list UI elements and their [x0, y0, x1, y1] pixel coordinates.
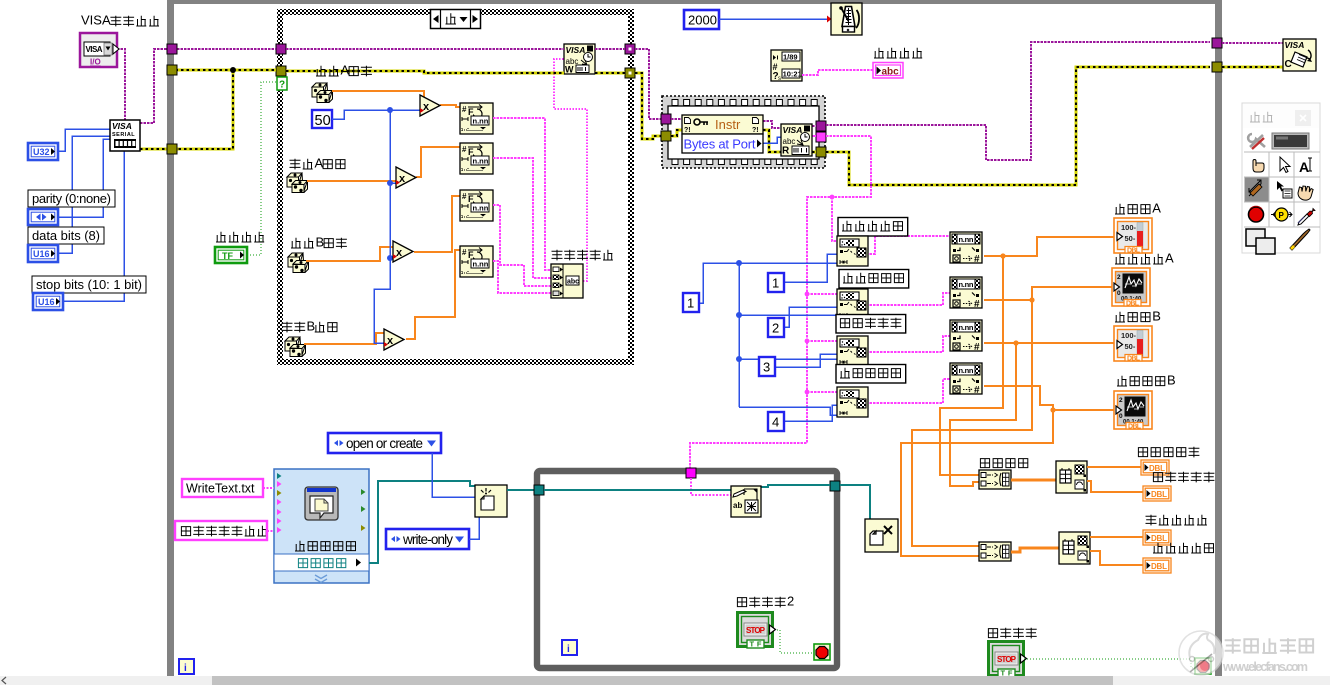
blue junction c	[736, 356, 742, 362]
svg-text:i: i	[567, 644, 570, 655]
coercion dot on wait input	[827, 16, 832, 23]
orange junction tempA	[1000, 253, 1005, 258]
svg-text:C: C	[1285, 59, 1292, 70]
svg-text:x: x	[387, 335, 394, 347]
svg-text:VISA: VISA	[1285, 40, 1305, 50]
array wire to max-min 2	[1011, 548, 1059, 552]
junction blue 1	[387, 107, 393, 113]
case left tunnel error (olive)	[276, 66, 286, 76]
VISA read node	[781, 124, 812, 157]
svg-text:DBL: DBL	[1151, 562, 1167, 571]
number-to-fractional-string 2	[460, 143, 493, 174]
VISA close node	[1283, 39, 1316, 71]
label "湿度最小值"	[1153, 543, 1214, 553]
DBL indicator hum min	[1143, 558, 1171, 573]
sequence left tunnel VISA	[661, 114, 671, 124]
error wire into case	[233, 69, 276, 72]
orange junction humB	[1050, 407, 1055, 412]
label "parity (0:none)"	[28, 190, 115, 207]
constant 4	[768, 412, 784, 431]
label "停止采集"	[988, 628, 1036, 639]
tools palette window	[1242, 103, 1320, 253]
wire multiply4 to to-fract-string4	[406, 250, 460, 339]
svg-text:A: A	[1152, 201, 1161, 216]
pink junction 1	[830, 195, 835, 200]
svg-text:100-: 100-	[1121, 331, 1137, 340]
fract/exp string to number 4	[950, 363, 982, 396]
wire offset4 to subset4	[784, 405, 837, 421]
pink junction 4	[805, 390, 810, 395]
svg-text:W: W	[565, 65, 574, 75]
error wire to close	[1222, 66, 1283, 69]
number-to-fractional-string 4	[460, 246, 493, 277]
loop right tunnel error	[1212, 62, 1222, 72]
VISA resource name control	[80, 33, 119, 67]
array max & min node (hum)	[1059, 532, 1090, 564]
svg-text:2: 2	[772, 321, 779, 336]
svg-text:3: 3	[763, 360, 770, 375]
error wire sequence to loop tunnel	[826, 67, 1210, 185]
wire write-only to open node	[469, 517, 479, 539]
sequence right tunnel VISA	[816, 121, 826, 131]
svg-text:50-: 50-	[1125, 342, 1136, 351]
label "部分字符串" 1	[838, 218, 908, 237]
label "湿度最大值"	[1146, 515, 1207, 526]
inner loop iteration terminal	[562, 640, 577, 655]
VISA wire sequence to loop tunnel	[826, 42, 1210, 160]
constant 50	[312, 110, 332, 129]
svg-text:parity (0:none): parity (0:none)	[32, 191, 111, 206]
wire offset2 to subset2	[784, 307, 837, 327]
svg-text:?!: ?!	[752, 127, 759, 134]
svg-text:VISA: VISA	[783, 125, 803, 135]
orange tempA to thermometer A	[984, 237, 1114, 256]
error wire write to tunnel	[595, 72, 625, 75]
svg-text:1/89: 1/89	[783, 53, 798, 62]
svg-text:STOP: STOP	[746, 626, 766, 635]
fract/exp string to number 1	[950, 232, 982, 265]
outer while loop border	[167, 0, 1222, 676]
array wire to max-min	[1011, 479, 1056, 482]
case right tunnel error (olive)	[625, 68, 635, 78]
blue len to subset3	[739, 358, 837, 360]
VISA wire case to sequence	[635, 49, 661, 119]
watermark text 电子发烧友	[1225, 638, 1313, 653]
VISA wire to close	[1222, 42, 1283, 44]
case selector label	[431, 10, 481, 29]
junction blue 2	[387, 180, 393, 186]
wire multiply3 to to-fract-string3	[414, 196, 460, 252]
string wire F4 to concat	[493, 261, 551, 293]
loop left tunnel VISA (purple)	[167, 44, 177, 54]
string subset node 3	[837, 336, 868, 366]
label "部分字符串" 2	[839, 270, 909, 289]
open/create/replace file node	[475, 485, 507, 517]
label "波形图表A"	[1115, 251, 1174, 266]
string wire subset4 out	[866, 379, 950, 403]
blue branch multiply2	[390, 182, 396, 184]
svg-text:2: 2	[787, 594, 794, 609]
string wire concat to VISA write	[554, 59, 587, 281]
path wire dialog to open-create	[369, 481, 475, 563]
wire configure-serial VISA out to loop tunnel	[140, 49, 167, 123]
svg-text:www.elecfans.com: www.elecfans.com	[1222, 660, 1308, 674]
path wire to close file	[840, 485, 870, 519]
orange humB to build-array2	[901, 410, 1053, 556]
svg-text:2: 2	[1117, 274, 1121, 281]
string branch to subset3	[807, 340, 837, 342]
case structure border (true case)	[277, 9, 634, 365]
multiply node 4	[384, 329, 404, 350]
string subset node 4	[837, 387, 868, 417]
svg-text:n.nn: n.nn	[959, 235, 974, 244]
svg-text:x: x	[399, 173, 406, 185]
wire dice B-hum to multiply	[304, 333, 384, 344]
string wire subset1 out	[866, 236, 952, 254]
wire constant 50 to multiplies	[332, 110, 420, 119]
svg-text:abc: abc	[882, 67, 900, 78]
svg-text:50: 50	[315, 113, 331, 129]
case selector ? terminal	[277, 77, 287, 91]
label "温度计B"	[1115, 309, 1161, 324]
svg-text:s: s	[778, 76, 781, 82]
svg-text:VISA: VISA	[112, 121, 132, 131]
svg-text:VISA: VISA	[81, 13, 111, 28]
svg-text:4: 4	[772, 415, 779, 430]
svg-text:VISA: VISA	[86, 45, 103, 54]
svg-text:STOP: STOP	[997, 655, 1017, 664]
VISA wire across case	[286, 48, 564, 50]
pink junction 3	[805, 339, 810, 344]
U32 baud rate terminal	[28, 143, 58, 160]
svg-text:U32: U32	[33, 147, 50, 157]
error wire property node to read	[763, 130, 781, 152]
sequence left tunnel error	[661, 131, 671, 141]
string wire subset2 out	[866, 293, 950, 305]
write text file node	[731, 486, 761, 517]
inner loop right tunnel path	[830, 481, 840, 491]
svg-text:stop bits (10: 1 bit): stop bits (10: 1 bit)	[36, 277, 142, 292]
DBL indicator hum max	[1143, 530, 1171, 545]
string constant WriteText.txt	[182, 479, 263, 497]
number-to-fractional-string 3	[460, 190, 493, 221]
constant 1 (offset A)	[768, 273, 784, 292]
svg-text:2000: 2000	[688, 13, 717, 28]
string subset node 1	[837, 236, 868, 266]
wire VISA control to configure-serial	[117, 49, 125, 120]
wire len-1 to bus	[700, 263, 739, 303]
label "stop bits (10: 1 bit)"	[32, 276, 146, 293]
constant 1 (length)	[683, 293, 699, 312]
enum constant "open or create"	[328, 433, 441, 453]
orange humA to chart A	[984, 287, 1112, 300]
label "VISA资源名称"	[81, 13, 159, 28]
wire start-collect boolean to case selector	[247, 82, 277, 255]
path wire write-text to right tunnel	[761, 485, 830, 487]
error wire serial out	[140, 70, 233, 149]
error wire junction	[230, 67, 236, 73]
string branch to subset2	[807, 293, 837, 295]
svg-text:#: #	[462, 105, 467, 114]
array max & min node (temp)	[1056, 461, 1087, 493]
svg-text:DBL: DBL	[1128, 424, 1142, 431]
boolean wire stop2 to condition	[777, 630, 814, 653]
svg-text:#: #	[974, 299, 980, 310]
svg-text:x: x	[423, 101, 430, 113]
label "串口A湿度"	[290, 156, 346, 171]
label "停止采集 2"	[737, 594, 794, 609]
svg-text:10:21: 10:21	[783, 70, 802, 79]
thermometer A indicator	[1114, 218, 1152, 255]
svg-text:#: #	[462, 248, 467, 257]
svg-text:n.nn: n.nn	[959, 366, 974, 375]
svg-text:A: A	[340, 63, 349, 78]
error wire tunnel to property node	[671, 130, 682, 136]
waveform chart A indicator	[1112, 268, 1150, 308]
string wire tunnel to write-text	[691, 478, 731, 495]
loop left tunnel error (olive) upper	[167, 65, 177, 75]
svg-text:B: B	[306, 319, 315, 334]
label "温度计A"	[1115, 201, 1161, 216]
orange humA to build-array2	[912, 300, 1032, 546]
orange junction tempB	[1013, 340, 1018, 345]
svg-text:#: #	[462, 145, 467, 154]
blue len to subset4	[739, 407, 837, 415]
string wire read buffer down	[690, 136, 871, 468]
string wire F3 to concat	[493, 205, 551, 286]
blue length bus	[738, 263, 740, 407]
wire bytes-at-port to read count	[763, 137, 781, 143]
wire dice B-temp to multiply	[306, 247, 394, 261]
svg-text:1: 1	[687, 296, 694, 311]
case left tunnel VISA (purple)	[276, 44, 286, 54]
VISA write node	[564, 44, 595, 75]
svg-text:I/O: I/O	[90, 58, 101, 67]
constant 3	[759, 357, 775, 376]
build array node (temp)	[979, 470, 1011, 489]
orange tempB to build-array	[950, 343, 1016, 486]
multiply node 1	[420, 95, 440, 116]
svg-text:Bytes at Port: Bytes at Port	[684, 137, 756, 152]
blue len to subset1	[739, 262, 837, 264]
VISA configure serial port node	[110, 120, 140, 151]
svg-text:n.nn: n.nn	[473, 204, 489, 213]
svg-text:DBL: DBL	[1151, 490, 1167, 499]
svg-text:DBL: DBL	[1126, 301, 1140, 308]
svg-text:A: A	[1165, 251, 1174, 266]
flat sequence structure (film frame)	[662, 96, 825, 168]
loop right tunnel VISA	[1212, 38, 1222, 48]
blue len to subset2	[739, 314, 837, 316]
wire open-or-create to open node	[432, 453, 475, 497]
enum constant "write-only"	[386, 529, 469, 549]
property node Instr / Bytes at Port	[682, 115, 763, 153]
U16 data bits terminal	[28, 245, 58, 262]
error wire read to tunnel	[812, 151, 816, 154]
label "data bits (8)"	[28, 227, 104, 244]
random dice 串口B湿度	[285, 337, 306, 357]
palette color swatches	[1246, 229, 1310, 254]
svg-text:n.nn: n.nn	[473, 157, 489, 166]
concatenate strings node	[551, 264, 583, 298]
waveform chart B indicator	[1114, 391, 1152, 431]
wire multiply1 to to-fract-string1	[440, 105, 460, 107]
svg-text:?: ?	[279, 80, 285, 91]
loop left tunnel error (olive) lower	[167, 144, 177, 154]
label "连接字符串"	[552, 250, 613, 261]
svg-text:DBL: DBL	[1149, 464, 1165, 473]
random dice 串口B温度	[288, 253, 309, 273]
string branch to subset4	[807, 391, 837, 393]
sequence right tunnel error	[816, 147, 826, 157]
orange tempA to build-array	[940, 256, 1003, 475]
stop button 停止采集 2	[738, 613, 776, 649]
label "串口B湿度"	[282, 319, 338, 334]
label 所选路径 (in dialog)	[298, 559, 345, 568]
blue junction a	[736, 260, 742, 266]
svg-text:DBL: DBL	[1127, 356, 1141, 363]
wire VISA into case (inside loop)	[177, 48, 276, 50]
svg-text:A: A	[314, 156, 323, 171]
parity enum terminal	[28, 209, 58, 225]
svg-text:B: B	[315, 235, 324, 250]
wait until next ms multiple node (metronome)	[831, 3, 862, 35]
inner while loop border	[537, 471, 837, 668]
string subset node 2	[837, 289, 868, 319]
wire dice A-hum to multiply	[307, 172, 400, 181]
wire stop bits to serial node	[63, 151, 124, 301]
label "创建数组"	[980, 459, 1027, 468]
svg-text:B: B	[1152, 309, 1161, 324]
svg-text:n.nn: n.nn	[473, 260, 489, 269]
svg-text:n.nn: n.nn	[959, 280, 974, 289]
start collect TF boolean terminal	[215, 247, 247, 263]
label 文件对话框 (in dialog)	[295, 541, 356, 551]
orange tempB to thermometer B	[984, 342, 1114, 344]
label "部分字符串" 3	[836, 315, 906, 334]
watermark logo	[1179, 631, 1223, 675]
orange min temp	[1087, 481, 1143, 492]
error wire case to sequence	[635, 73, 661, 139]
svg-text:#: #	[974, 254, 980, 265]
string wire subset3 out	[866, 336, 950, 352]
svg-text:100-: 100-	[1121, 223, 1137, 232]
thermometer B indicator	[1114, 326, 1152, 363]
label "串口B温度"	[291, 235, 347, 250]
orange junction humA	[1029, 297, 1034, 302]
random dice 串口A湿度	[287, 173, 308, 193]
svg-text:i: i	[184, 663, 187, 674]
wire 2000 to wait-ms	[719, 18, 827, 20]
svg-text:n.nn: n.nn	[959, 323, 974, 332]
outer loop iteration terminal	[179, 659, 194, 674]
wire parity to serial node	[58, 139, 110, 217]
svg-text:n.nn: n.nn	[473, 117, 489, 126]
boolean wire stop to condition	[1024, 659, 1195, 668]
palette tool grid	[1244, 152, 1320, 227]
random dice 串口A温度	[312, 83, 333, 103]
string wire F2 to concat	[493, 158, 551, 278]
blue branch multiply3	[390, 257, 393, 259]
close file node	[865, 519, 898, 552]
svg-text:data bits (8): data bits (8)	[32, 228, 100, 243]
svg-text:A: A	[1299, 159, 1309, 175]
string wire F1 to concat	[493, 118, 551, 270]
error wire across case	[286, 71, 564, 73]
fract/exp string to number 3	[950, 320, 982, 353]
multiply node 3	[393, 241, 413, 262]
svg-text:#: #	[974, 342, 980, 353]
svg-text:U16: U16	[38, 297, 55, 307]
file dialog express VI	[274, 469, 369, 583]
wire U32 baud to serial node	[58, 129, 110, 151]
VISA wire read to tunnel	[812, 125, 816, 127]
orange max hum	[1090, 536, 1143, 538]
string wire datetime to indicator	[802, 70, 873, 75]
svg-text:Instr: Instr	[715, 117, 741, 132]
VISA wire tunnel to property node	[671, 118, 682, 120]
svg-text:?!: ?!	[684, 127, 691, 134]
label "串口A温度"	[316, 63, 372, 78]
svg-text:TF: TF	[222, 251, 233, 261]
label "请选择写入文件" (magenta box)	[181, 526, 267, 537]
orange humB to chart B	[984, 386, 1116, 410]
svg-text:WriteText.txt: WriteText.txt	[186, 482, 255, 496]
stop button 停止采集	[989, 642, 1027, 678]
svg-text:DBL: DBL	[1127, 248, 1141, 255]
svg-text:ab: ab	[733, 501, 742, 510]
horizontal scrollbar	[0, 676, 1330, 685]
pink junction 2	[805, 292, 810, 297]
number-to-fractional-string 1	[460, 103, 493, 134]
string wire WriteText to dialog	[263, 487, 274, 489]
multiply node 2	[396, 167, 416, 188]
VISA wire write to tunnel	[595, 48, 625, 50]
svg-text:2: 2	[1119, 397, 1123, 404]
label "时间显示"	[874, 48, 922, 58]
outer loop condition terminal	[1195, 658, 1211, 674]
svg-text:50-: 50-	[1125, 234, 1136, 243]
label "波形图表 B"	[1117, 373, 1176, 388]
wire offset1 to subset1	[783, 254, 837, 282]
label "温度最大值"	[1138, 447, 1199, 458]
DBL indicator temp min	[1143, 486, 1171, 501]
svg-text:open or create: open or create	[346, 436, 423, 451]
blue junction b	[736, 312, 742, 318]
svg-text:1: 1	[772, 276, 779, 291]
string wire read to tunnel	[812, 135, 816, 137]
constant 2000	[684, 10, 719, 29]
palette title 工具	[1250, 112, 1273, 122]
string wire prompt to dialog	[267, 530, 274, 532]
get date/time string node	[771, 50, 802, 82]
svg-text:VISA: VISA	[566, 45, 586, 55]
svg-text:R: R	[782, 146, 790, 157]
build array node (hum)	[979, 542, 1011, 561]
orange max temp	[1087, 466, 1141, 468]
svg-text:write-only: write-only	[402, 532, 453, 547]
svg-text:abc: abc	[567, 279, 579, 286]
blue bus vertical	[374, 110, 390, 343]
label "开始采集"	[216, 232, 264, 242]
svg-text:#: #	[462, 192, 467, 201]
wire multiply2 to to-fract-string2	[416, 147, 460, 177]
svg-text:#: #	[974, 385, 980, 396]
inner loop top tunnel string	[686, 468, 696, 478]
palette auto-tool row	[1248, 133, 1309, 149]
time display string indicator	[873, 63, 903, 79]
wire offset3 to subset3	[775, 354, 837, 367]
